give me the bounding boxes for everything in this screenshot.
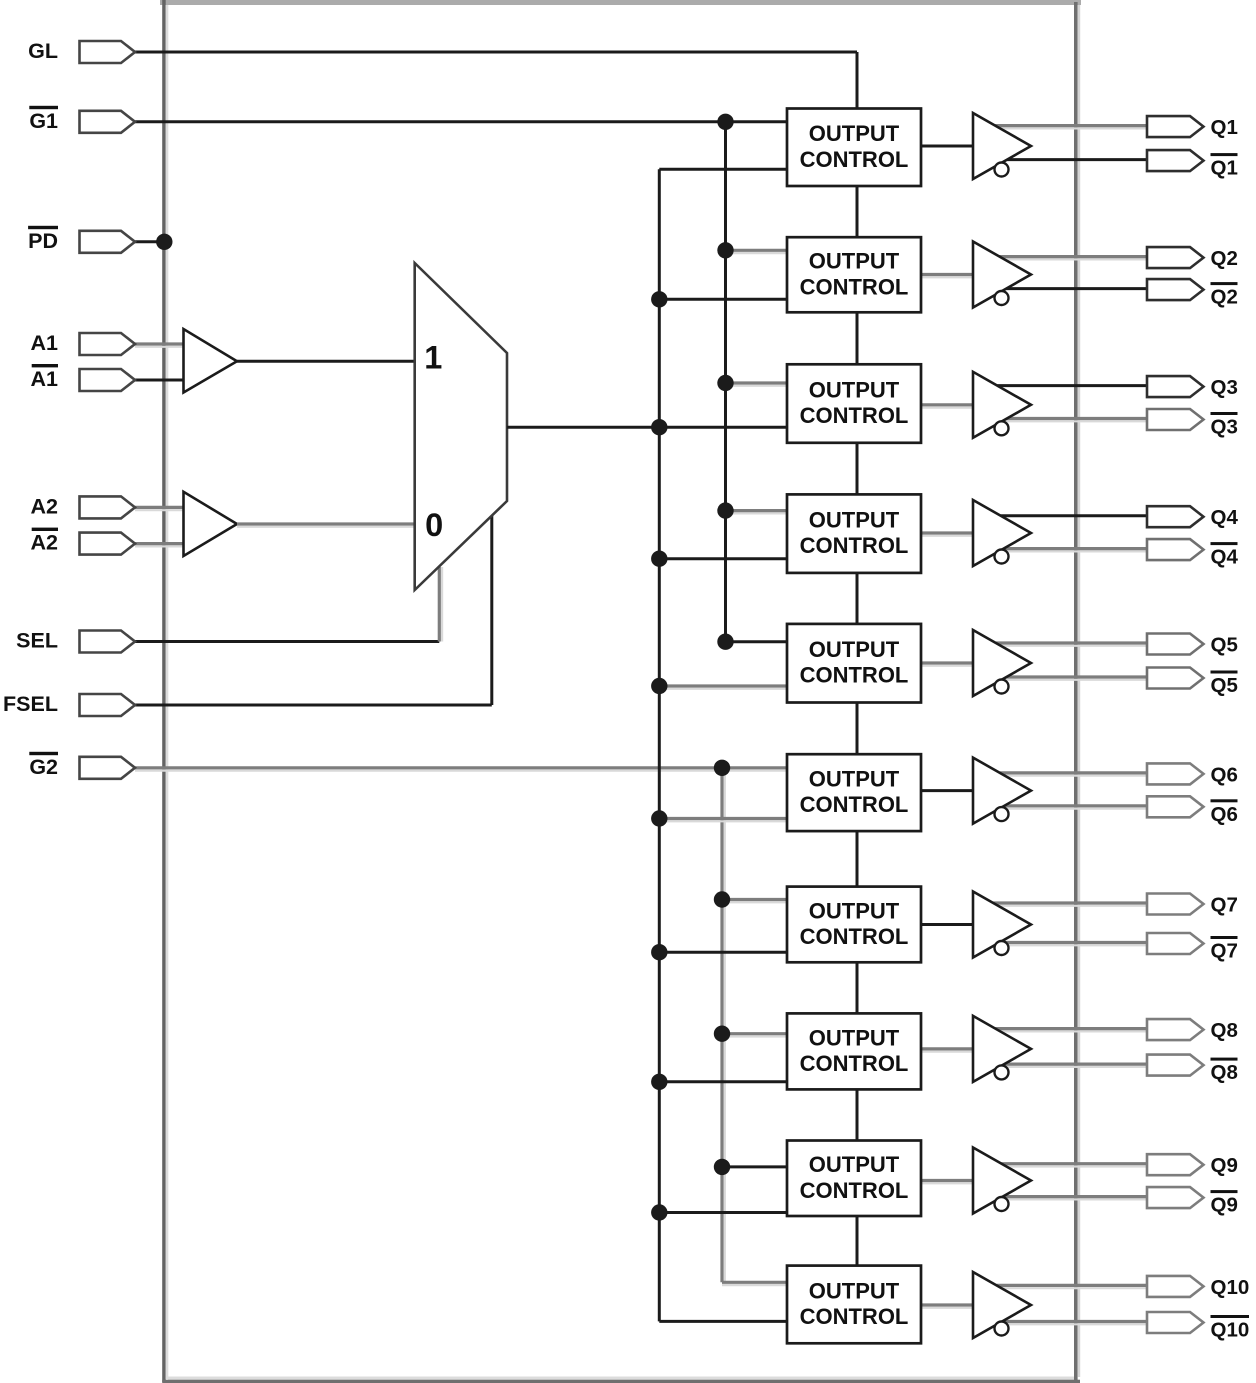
svg-text:Q9: Q9 xyxy=(1211,1154,1238,1177)
svg-text:Q6: Q6 xyxy=(1211,803,1238,826)
svg-text:Q1: Q1 xyxy=(1211,116,1238,139)
svg-text:CONTROL: CONTROL xyxy=(800,924,909,949)
svg-text:OUTPUT: OUTPUT xyxy=(809,637,900,662)
svg-text:OUTPUT: OUTPUT xyxy=(809,377,900,402)
svg-text:OUTPUT: OUTPUT xyxy=(809,767,900,792)
svg-text:Q1: Q1 xyxy=(1211,157,1238,180)
svg-text:CONTROL: CONTROL xyxy=(800,1051,909,1076)
svg-text:Q2: Q2 xyxy=(1211,286,1238,309)
svg-text:A1: A1 xyxy=(31,367,59,391)
svg-text:G2: G2 xyxy=(29,755,58,779)
svg-text:Q10: Q10 xyxy=(1211,1276,1250,1299)
svg-text:Q9: Q9 xyxy=(1211,1194,1238,1217)
svg-text:OUTPUT: OUTPUT xyxy=(809,508,900,533)
svg-text:OUTPUT: OUTPUT xyxy=(809,249,900,274)
svg-text:CONTROL: CONTROL xyxy=(800,403,909,428)
svg-text:1: 1 xyxy=(424,340,442,376)
svg-text:CONTROL: CONTROL xyxy=(800,1304,909,1329)
svg-text:PD: PD xyxy=(28,229,58,253)
svg-text:SEL: SEL xyxy=(16,629,58,653)
svg-text:CONTROL: CONTROL xyxy=(800,792,909,817)
svg-text:0: 0 xyxy=(425,507,443,543)
svg-text:CONTROL: CONTROL xyxy=(800,663,909,688)
svg-text:A2: A2 xyxy=(31,531,59,555)
svg-text:A2: A2 xyxy=(31,494,59,518)
svg-text:Q2: Q2 xyxy=(1211,247,1238,270)
svg-text:FSEL: FSEL xyxy=(3,692,58,716)
svg-text:Q6: Q6 xyxy=(1211,763,1238,786)
svg-text:CONTROL: CONTROL xyxy=(800,147,909,172)
svg-text:OUTPUT: OUTPUT xyxy=(809,1152,900,1177)
svg-text:GL: GL xyxy=(28,39,58,63)
svg-text:Q7: Q7 xyxy=(1211,940,1238,963)
svg-text:Q8: Q8 xyxy=(1211,1019,1238,1042)
svg-text:OUTPUT: OUTPUT xyxy=(809,121,900,146)
svg-text:OUTPUT: OUTPUT xyxy=(809,1278,900,1303)
svg-text:Q10: Q10 xyxy=(1211,1319,1250,1342)
svg-text:Q4: Q4 xyxy=(1211,506,1239,529)
svg-text:CONTROL: CONTROL xyxy=(800,533,909,558)
svg-text:CONTROL: CONTROL xyxy=(800,274,909,299)
svg-text:OUTPUT: OUTPUT xyxy=(809,898,900,923)
svg-text:Q4: Q4 xyxy=(1211,546,1239,569)
svg-text:Q5: Q5 xyxy=(1211,634,1238,657)
svg-text:Q8: Q8 xyxy=(1211,1061,1238,1084)
svg-text:Q5: Q5 xyxy=(1211,674,1238,697)
svg-text:CONTROL: CONTROL xyxy=(800,1178,909,1203)
svg-text:A1: A1 xyxy=(31,331,59,355)
svg-text:G1: G1 xyxy=(29,109,58,133)
svg-text:Q3: Q3 xyxy=(1211,376,1238,399)
svg-text:Q3: Q3 xyxy=(1211,416,1238,439)
svg-text:Q7: Q7 xyxy=(1211,894,1238,917)
svg-text:OUTPUT: OUTPUT xyxy=(809,1025,900,1050)
